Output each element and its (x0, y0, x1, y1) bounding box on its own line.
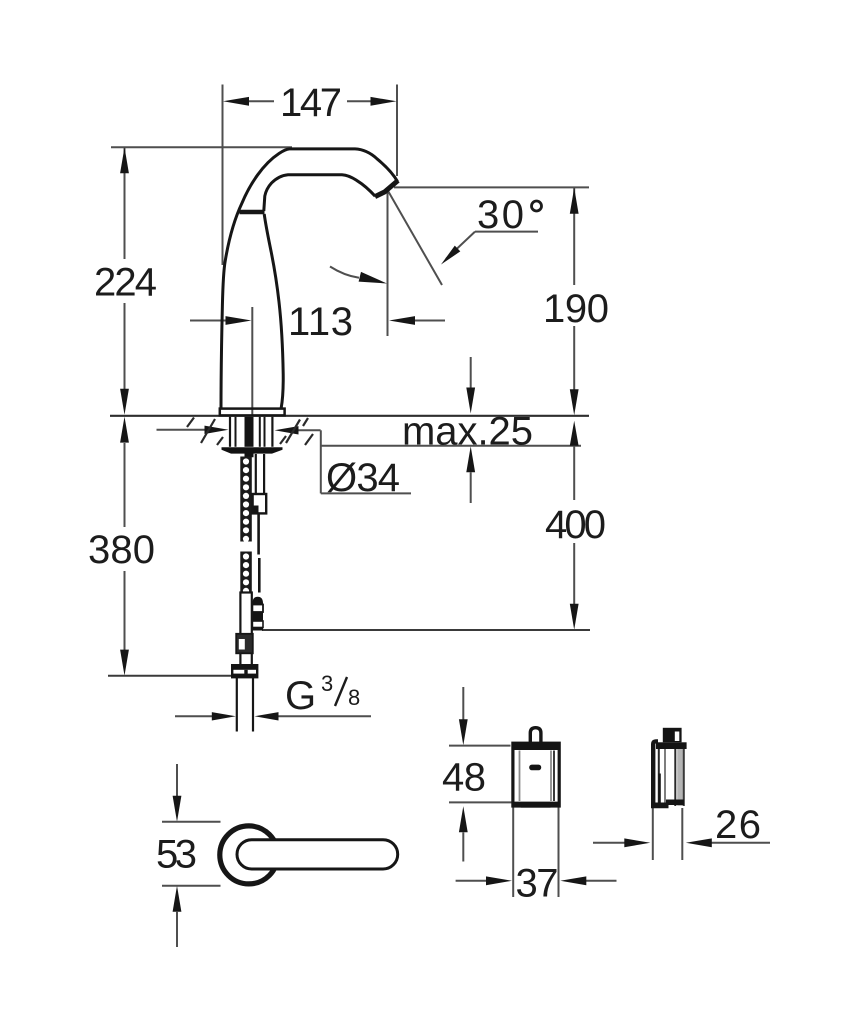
side view hook line (658, 774, 660, 806)
counter hatch left (187, 418, 194, 428)
faucet spout outer profile (221, 149, 398, 409)
control unit nub (530, 728, 541, 744)
cable clamp block (253, 494, 267, 513)
threaded mounting rod lower (240, 552, 252, 593)
connection tube G3/8 (236, 677, 238, 732)
30 degree leader (475, 231, 538, 233)
svg-text:max.25: max.25 (402, 410, 533, 454)
rubber seal washer (222, 447, 283, 457)
spout/body joint bar (240, 210, 265, 215)
coupling nut (232, 665, 257, 677)
dim O34 arrows (157, 429, 207, 431)
side view left wall (653, 741, 658, 807)
svg-text:8: 8 (348, 685, 360, 710)
spout tip vertical reference line (387, 190, 389, 336)
side view body lines (658, 749, 660, 806)
dim G3/8 arrows (175, 715, 212, 717)
control unit window dash (529, 765, 541, 771)
sensor cable upper (255, 454, 257, 494)
svg-text:380: 380 (88, 528, 155, 572)
handle escutcheon ring (220, 826, 278, 884)
dim 147 line (249, 100, 274, 102)
faucet spout end face (375, 181, 398, 197)
control unit box inner lines (519, 751, 521, 802)
dim 380 line (124, 443, 126, 527)
threaded mounting rod upper (240, 457, 252, 542)
svg-text:Ø34: Ø34 (326, 456, 400, 500)
dim 190 line (573, 188, 575, 285)
svg-text:48: 48 (442, 756, 486, 800)
30 degree flow line (388, 191, 442, 286)
dim 53 (176, 764, 178, 796)
svg-text:G: G (285, 674, 316, 718)
svg-text:224: 224 (94, 261, 157, 305)
mounting shank (229, 417, 231, 447)
cable plug (252, 597, 263, 605)
dim 26 (652, 808, 654, 860)
dim 190 top extension line (394, 186, 589, 188)
svg-text:37: 37 (516, 862, 559, 906)
side view bottom band (651, 800, 684, 809)
dim 147 extension line right (396, 85, 398, 177)
supply tube (240, 593, 251, 667)
counter hatch right (280, 436, 286, 444)
dim O34 leader box (320, 430, 322, 493)
dim 113 arrows (190, 320, 226, 322)
side view nub block (663, 728, 682, 743)
svg-text:113: 113 (288, 300, 353, 344)
tube sleeve (236, 634, 253, 654)
dim 224 line (124, 148, 126, 259)
control unit box (513, 743, 559, 806)
faucet spout inner profile (264, 175, 375, 211)
faucet body right profile (264, 214, 283, 408)
svg-text:400: 400 (545, 503, 606, 547)
svg-text:147: 147 (280, 81, 342, 125)
swivel arc arrow (330, 267, 359, 278)
dim 48 (462, 687, 464, 720)
top extension line y=147 (111, 146, 292, 148)
dim 380 bottom extension line (108, 675, 234, 677)
dim 147 extension line left (222, 85, 224, 266)
side view top cap (656, 742, 687, 749)
dim max.25 arrows (470, 357, 472, 388)
dim 400 line (570, 421, 579, 446)
dim 400 bottom extension line (262, 629, 590, 631)
handle lever (237, 840, 398, 869)
svg-text:53: 53 (156, 833, 197, 877)
max.25 lower line (321, 445, 581, 447)
countertop deck line (110, 415, 589, 417)
dim 113 extension line (251, 307, 253, 415)
svg-text:3: 3 (321, 671, 333, 696)
faucet base plate (220, 409, 285, 416)
svg-text:190: 190 (543, 287, 609, 331)
control unit box bottom band (513, 802, 559, 808)
svg-text:26: 26 (715, 803, 761, 847)
degree symbol (532, 201, 542, 211)
dim 37 (512, 806, 514, 897)
cable line (257, 513, 260, 554)
